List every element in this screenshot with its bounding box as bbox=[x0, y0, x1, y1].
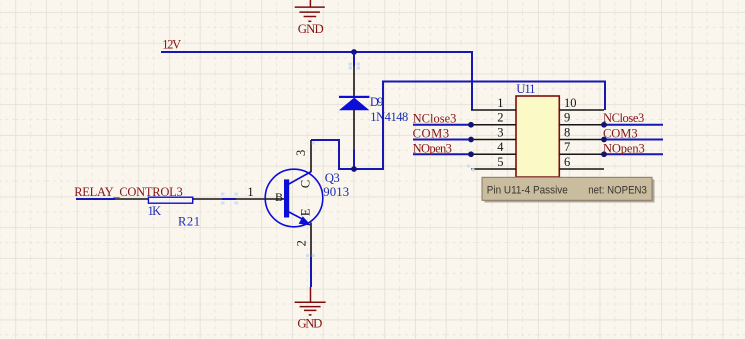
svg-text:12V: 12V bbox=[162, 37, 181, 51]
diode D9 pin 1 (anode lead) bbox=[353, 110, 355, 150]
relay U11 box bbox=[516, 96, 559, 177]
relay U11 left pins 1-5 bbox=[471, 110, 516, 169]
resistor R21 pin 2 bbox=[193, 198, 222, 200]
svg-text:C: C bbox=[299, 180, 313, 188]
wire base net right segment bbox=[222, 198, 236, 200]
svg-text:5: 5 bbox=[497, 155, 503, 169]
transistor Q3 body bbox=[265, 169, 323, 227]
svg-text:1: 1 bbox=[247, 185, 253, 199]
wire COM3 (left) bbox=[413, 139, 471, 141]
wire 12V rail bbox=[161, 52, 472, 110]
wire COM3 (right) bbox=[604, 139, 663, 141]
svg-text:2: 2 bbox=[497, 111, 503, 125]
svg-text:GND: GND bbox=[298, 22, 324, 36]
junction pin9 bbox=[601, 122, 607, 128]
svg-text:4: 4 bbox=[497, 140, 504, 154]
transistor Q3 collector pin bbox=[310, 140, 312, 172]
tooltip "Pin U11-4 Passive net: NOPEN3" bbox=[482, 177, 655, 202]
junction pin2 bbox=[468, 122, 474, 128]
svg-text:U11: U11 bbox=[516, 82, 535, 96]
wire NOpen3 (right) bbox=[604, 153, 663, 155]
transistor Q3 emitter pin bbox=[310, 223, 312, 258]
pin numbers left 1-5 bbox=[497, 96, 504, 169]
svg-text:10: 10 bbox=[564, 96, 577, 110]
junction pin8 bbox=[601, 137, 607, 143]
diode D9 body bbox=[339, 96, 369, 110]
wire emitter to ground bbox=[310, 257, 312, 287]
junction pin7 bbox=[601, 151, 607, 157]
wire diode top stub bbox=[353, 52, 355, 66]
svg-text:9013: 9013 bbox=[323, 185, 349, 199]
wire NClose3 (right) bbox=[604, 124, 663, 126]
wire collector net to relay pin 10 bbox=[311, 82, 605, 170]
svg-text:COM3: COM3 bbox=[413, 127, 450, 141]
svg-text:NOpen3: NOpen3 bbox=[413, 141, 452, 155]
svg-text:COM3: COM3 bbox=[603, 126, 638, 140]
junction at diode anode / collector net bbox=[351, 166, 357, 172]
svg-text:3: 3 bbox=[294, 150, 308, 156]
wire base net left segment bbox=[76, 198, 115, 200]
svg-text:E: E bbox=[299, 208, 313, 216]
ground (bottom GND power symbol) bbox=[295, 287, 326, 315]
svg-text:7: 7 bbox=[564, 140, 570, 154]
svg-text:NOpen3: NOpen3 bbox=[603, 141, 645, 155]
svg-text:R21: R21 bbox=[178, 214, 200, 228]
relay U11 right pins 10-6 bbox=[559, 110, 604, 169]
svg-text:8: 8 bbox=[564, 125, 570, 139]
svg-text:1K: 1K bbox=[148, 204, 162, 218]
ground (top GND power symbol) bbox=[295, 0, 325, 21]
wire NClose3 (left) bbox=[413, 124, 471, 126]
svg-text:NClose3: NClose3 bbox=[603, 111, 644, 125]
resistor R21 body bbox=[148, 197, 192, 203]
svg-text:1: 1 bbox=[497, 96, 503, 110]
svg-text:net: NOPEN3: net: NOPEN3 bbox=[588, 184, 647, 196]
svg-text:B: B bbox=[275, 190, 283, 204]
svg-text:GND: GND bbox=[297, 317, 322, 331]
pin numbers right 10-6 bbox=[564, 96, 577, 169]
wire diode bottom stub bbox=[353, 150, 355, 169]
svg-text:Q3: Q3 bbox=[325, 171, 340, 185]
wire NOpen3 (left) bbox=[413, 153, 471, 155]
junction pin4 bbox=[468, 151, 474, 157]
svg-text:3: 3 bbox=[497, 125, 503, 139]
junction on 12V rail at diode bbox=[351, 49, 357, 55]
svg-text:9: 9 bbox=[564, 111, 570, 125]
svg-text:Pin U11-4 Passive: Pin U11-4 Passive bbox=[487, 184, 568, 196]
svg-text:D9: D9 bbox=[370, 95, 384, 109]
svg-text:6: 6 bbox=[564, 155, 570, 169]
diode D9 pin 2 (cathode lead) bbox=[353, 66, 355, 96]
svg-text:1N4148: 1N4148 bbox=[370, 110, 408, 124]
svg-text:NClose3: NClose3 bbox=[413, 112, 457, 126]
resistor R21 pin 1 bbox=[115, 198, 148, 200]
transistor Q3 base pin bbox=[236, 198, 285, 200]
svg-text:2: 2 bbox=[295, 240, 309, 246]
junction pin3 bbox=[468, 137, 474, 143]
wire endpoint marks bbox=[221, 63, 475, 258]
